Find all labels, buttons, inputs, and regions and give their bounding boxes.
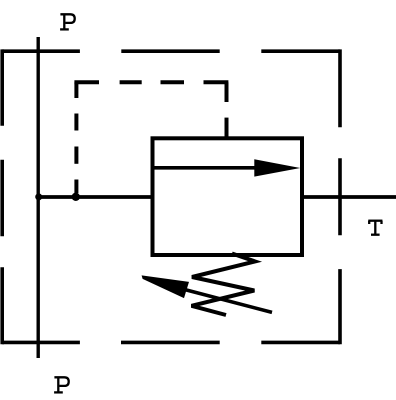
pilot line dashed left edge [74,82,78,193]
pilot line dashed right edge [225,82,229,138]
flow path arrowhead [254,159,300,176]
port P label top [60,14,75,29]
flow path arrow shaft [153,166,259,170]
port P line [37,37,40,358]
port P label bottom [54,377,69,392]
adjustment arrow shaft [185,290,272,313]
valve body U1 [153,138,303,255]
wire valve to T [300,195,396,199]
junction dot on P line [35,193,42,200]
port T label [368,221,382,235]
junction dot pilot tap [72,193,80,201]
enclosure dashed box [2,49,340,344]
wire P to valve [38,195,154,199]
pilot line dashed top edge [74,80,228,84]
spring [192,254,256,316]
adjustment arrowhead [142,275,189,298]
